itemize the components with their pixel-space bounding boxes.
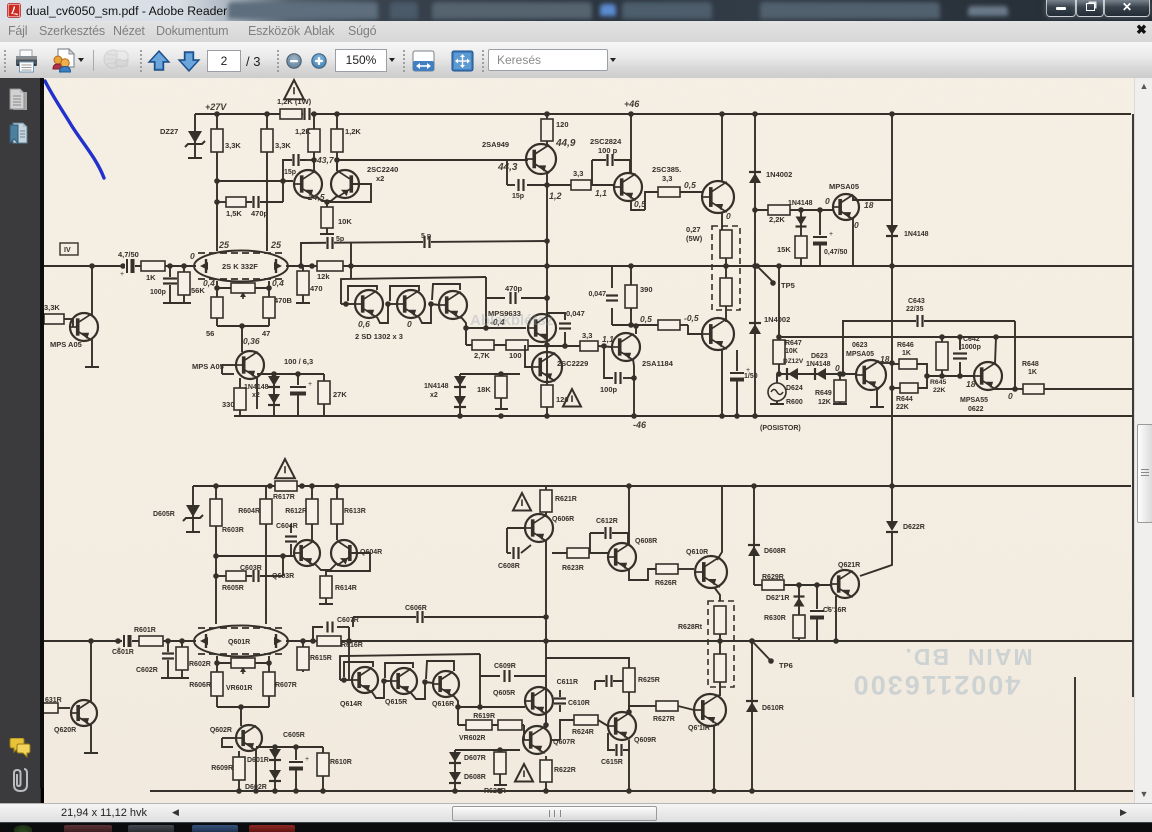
- resistor 1,2K (1W): [280, 109, 302, 119]
- resistor R621R: [545, 486, 547, 514]
- transistor Q607R: [523, 726, 551, 754]
- resistor 1K input: [141, 261, 165, 271]
- resistor R603R: [215, 486, 217, 624]
- wire buffer bases/emitters (bottom): [341, 677, 347, 683]
- svg-text:R603R: R603R: [222, 527, 244, 534]
- svg-text:Q620R: Q620R: [54, 727, 76, 734]
- svg-text:Q616R: Q616R: [432, 701, 454, 708]
- wire buffer bases/emitters: [343, 301, 349, 307]
- wire 2SA1184 emitter to rail: [633, 359, 634, 416]
- resistor R644 22K: [900, 383, 918, 393]
- svg-text:22K: 22K: [933, 387, 946, 394]
- resistor R604R: [265, 486, 267, 624]
- resistor 3,3K (left): [211, 129, 223, 152]
- transistor Q608R: [608, 543, 636, 571]
- resistor 3,3 (to Q13): [658, 187, 680, 197]
- warning triangle (R621R): [513, 493, 531, 511]
- svg-text:x2: x2: [430, 392, 438, 399]
- svg-text:1N4148: 1N4148: [788, 200, 813, 207]
- svg-text:DZ27: DZ27: [160, 127, 178, 136]
- capacitor C603R/R605R branch: [216, 575, 226, 577]
- wire bottom channel top rail: [193, 485, 1131, 487]
- wire 2SA1184 base feed: [528, 345, 580, 347]
- svg-text:5p: 5p: [336, 236, 344, 243]
- svg-text:2,7K: 2,7K: [474, 351, 490, 360]
- transistor 0623 MPSA05: [856, 360, 886, 390]
- wire buffer out node: [463, 325, 469, 331]
- svg-text:C604R: C604R: [276, 523, 298, 530]
- svg-text:C603R: C603R: [240, 565, 262, 572]
- svg-text:1K: 1K: [1028, 369, 1037, 376]
- transistor 2SC385: [614, 173, 642, 201]
- svg-text:MPSA05: MPSA05: [846, 351, 874, 358]
- dashed box 0,27 (5W) resistors: [712, 226, 740, 310]
- share/collab icon: [51, 48, 76, 73]
- wire base feed (bottom ch): [348, 641, 350, 679]
- svg-text:2SC2240: 2SC2240: [367, 165, 398, 174]
- resistor R626R (to Q610R): [656, 564, 678, 574]
- resistor R624R (to Q609R): [552, 739, 560, 741]
- svg-text:R624R: R624R: [572, 729, 594, 736]
- svg-text:0,36: 0,36: [243, 336, 260, 346]
- resistor 3,3 (to 2SC385): [547, 184, 614, 186]
- resistor 1,2K (right): [331, 129, 343, 152]
- wire output to speaker rail: [752, 263, 758, 269]
- transistor 2SD1302 (1): [355, 290, 383, 318]
- capacitor 5p (long feedback): [423, 236, 431, 248]
- resistor 56K: [183, 266, 185, 303]
- svg-text:-0,5: -0,5: [684, 313, 699, 323]
- svg-text:2SC2824: 2SC2824: [590, 137, 622, 146]
- svg-text:R614R: R614R: [335, 585, 357, 592]
- wire C606R left leg: [352, 617, 354, 627]
- svg-text:R621R: R621R: [555, 496, 577, 503]
- svg-text:2S K 332F: 2S K 332F: [222, 262, 258, 271]
- wire C643 feedback branch: [843, 321, 1015, 374]
- page up arrow: [147, 49, 171, 73]
- transistor 2SA949: [526, 144, 556, 174]
- svg-text:10K: 10K: [785, 348, 798, 355]
- svg-text:120: 120: [556, 120, 569, 129]
- svg-text:3,3K: 3,3K: [225, 141, 241, 150]
- svg-text:D622R: D622R: [903, 524, 925, 531]
- svg-text:R607R: R607R: [275, 682, 297, 689]
- resistor 2,7K: [472, 340, 494, 350]
- svg-text:1/50: 1/50: [744, 373, 758, 380]
- capacitor 100p 2SC2824: [592, 160, 630, 173]
- resistor R627R (to Q611R): [656, 701, 678, 711]
- wire right sub border: [1074, 677, 1076, 791]
- transistor Q605R: [525, 687, 553, 715]
- resistor R615R: [297, 647, 309, 670]
- wire Q611R collector down: [713, 726, 715, 791]
- wire Q603 base: [216, 555, 294, 557]
- wire 2SC2229 collector net: [546, 352, 548, 380]
- transistor 2SA1184: [612, 333, 640, 361]
- warning triangle (bottom lower): [515, 764, 533, 782]
- capacitor C609R loop (comp): [479, 654, 481, 707]
- svg-text:D623: D623: [811, 353, 828, 360]
- wire driver pnp collector to rail: [721, 350, 723, 416]
- svg-text:0623: 0623: [852, 342, 868, 349]
- wire buffer loop top: [341, 277, 486, 304]
- svg-text:1,2K (1W): 1,2K (1W): [277, 97, 312, 106]
- transistor 2SC2229: [532, 352, 562, 382]
- resistor R617R: [275, 481, 297, 491]
- resistor R622R: [545, 756, 547, 791]
- wire Q616R inner loop: [426, 661, 454, 679]
- left sidebar: [0, 78, 41, 803]
- svg-text:R604R: R604R: [238, 508, 260, 515]
- svg-text:631R: 631R: [45, 697, 62, 704]
- svg-text:C607R: C607R: [337, 617, 359, 624]
- svg-text:x2: x2: [252, 392, 260, 399]
- svg-text:2SA949: 2SA949: [482, 140, 509, 149]
- svg-text:56: 56: [206, 329, 214, 338]
- svg-text:+46: +46: [624, 99, 640, 109]
- svg-text:R619R: R619R: [473, 713, 495, 720]
- svg-text:100p: 100p: [600, 385, 618, 394]
- svg-text:Q606R: Q606R: [552, 516, 574, 523]
- svg-text:C608R: C608R: [498, 563, 520, 570]
- wire buffer inner loop 3: [432, 284, 460, 300]
- dashed box R628R resistors: [708, 601, 734, 687]
- trimmer VR601R: [217, 662, 269, 664]
- svg-text:+: +: [308, 381, 312, 388]
- svg-text:1,5K: 1,5K: [226, 209, 242, 218]
- transistor Q603R: [294, 540, 320, 566]
- transistor MPSA05 (protection): [833, 194, 859, 220]
- svg-text:C643: C643: [908, 298, 925, 305]
- svg-text:18: 18: [864, 200, 874, 210]
- resistor 27K: [323, 374, 325, 416]
- wire MPSA55 emitter to R648: [994, 388, 1015, 390]
- wire TP6: [752, 641, 770, 660]
- resistor 3,3 (to Q14): [658, 320, 680, 330]
- posistor R600/D624: [768, 383, 786, 401]
- resistor 15K: [800, 232, 802, 266]
- comments icon: [9, 738, 31, 758]
- svg-text:R628Rt: R628Rt: [678, 624, 703, 631]
- capacitor 0,047 (2SC2229): [547, 313, 565, 320]
- warning triangle (lower): [563, 389, 581, 407]
- svg-text:0,4: 0,4: [203, 278, 215, 288]
- transistor MPS A05 (current source): [236, 351, 264, 379]
- resistor 120 (lower): [546, 380, 548, 416]
- node dots on +27V rail: [214, 111, 220, 117]
- wire 2SC385 collector up: [630, 114, 632, 174]
- svg-text:R646: R646: [897, 342, 914, 349]
- svg-text:D610R: D610R: [762, 705, 784, 712]
- svg-text:R601R: R601R: [134, 627, 156, 634]
- wire bottom -46 rail: [234, 415, 1133, 417]
- svg-text:470p: 470p: [251, 209, 269, 218]
- zener D605R: [192, 486, 194, 532]
- capacitor C612R Q608R: [590, 533, 628, 543]
- svg-text:R644: R644: [896, 396, 913, 403]
- svg-text:IV: IV: [64, 247, 71, 254]
- svg-text:R615R: R615R: [310, 655, 332, 662]
- capacitor C605R: [295, 747, 297, 791]
- wire MPSA05 collector: [853, 196, 892, 200]
- wire Q603/Q604 emitters: [315, 564, 336, 570]
- wire buffer inner loop 2: [390, 286, 419, 301]
- capacitor 15p (2SC2240 base): [283, 160, 306, 181]
- wire R619R VR602R network: [457, 707, 459, 725]
- title bar: [0, 0, 1152, 21]
- bookmarks panel icon: [9, 122, 30, 148]
- svg-text:15p: 15p: [512, 193, 524, 200]
- svg-text:VR602R: VR602R: [459, 735, 485, 742]
- menu bar: [0, 21, 1152, 43]
- resistor 47 (source): [268, 297, 270, 326]
- diode 1N4002 (lower): [754, 266, 756, 416]
- svg-text:0: 0: [726, 211, 731, 221]
- transistor Q604R: [331, 540, 357, 566]
- svg-text:R630R: R630R: [764, 615, 786, 622]
- svg-text:-46: -46: [633, 420, 647, 430]
- svg-text:R626R: R626R: [655, 580, 677, 587]
- svg-text:MPSA55: MPSA55: [960, 397, 988, 404]
- wire Q621R emitter: [835, 596, 837, 641]
- wire 2SC2229 base/collector: [525, 345, 532, 367]
- svg-text:MPS A05: MPS A05: [50, 340, 82, 349]
- wire to Q602R: [240, 707, 242, 726]
- wire 2SC385 emitter: [631, 200, 640, 210]
- resistor R607R: [263, 672, 275, 696]
- wire MPSA55 collector up: [995, 337, 996, 364]
- svg-text:3,3: 3,3: [573, 169, 583, 178]
- capacitor C643 22/35: [916, 315, 924, 327]
- transistor Q611R: [694, 694, 726, 726]
- svg-text:D607R: D607R: [464, 755, 486, 762]
- resistor R614R: [325, 571, 327, 604]
- transistor Q620R: [71, 700, 97, 726]
- resistor R606R: [211, 672, 223, 696]
- capacitor 470p: [246, 201, 283, 203]
- svg-text:D601R: D601R: [247, 757, 269, 764]
- svg-text:R627R: R627R: [653, 716, 675, 723]
- svg-text:0,5: 0,5: [640, 314, 652, 324]
- transistor MPSA55 0622: [974, 362, 1002, 390]
- svg-text:43,7: 43,7: [316, 155, 335, 165]
- wire 2SC2240 collector/emitter join: [313, 160, 315, 171]
- resistor R612R: [311, 486, 313, 540]
- resistor 470 (jfet right): [302, 266, 304, 303]
- svg-text:(POSISTOR): (POSISTOR): [760, 425, 801, 432]
- svg-text:22K: 22K: [896, 404, 909, 411]
- svg-text:Q605R: Q605R: [493, 690, 515, 697]
- capacitor C602R: [167, 641, 169, 678]
- capacitor C642 1000p: [959, 337, 961, 350]
- zoom in circle: [311, 53, 327, 69]
- diode D621R: [798, 585, 800, 613]
- svg-text:1,1: 1,1: [595, 188, 607, 198]
- svg-text:D608R: D608R: [764, 548, 786, 555]
- wire Q610R emitter to R628R: [714, 587, 720, 601]
- capacitor C608R: [507, 527, 525, 529]
- node after 12K: [348, 263, 354, 269]
- wire mid rail node dots: [889, 263, 895, 269]
- ghost text 4002116300 MAIN BD (show-through): [852, 644, 1033, 700]
- wire driver emitter to 0,27: [721, 213, 723, 230]
- svg-text:0: 0: [854, 220, 859, 230]
- fit width icon: [412, 50, 435, 72]
- svg-text:D624: D624: [786, 385, 803, 392]
- svg-text:25: 25: [270, 240, 282, 250]
- resistor R610R: [322, 747, 324, 791]
- resistor R646 1K: [899, 359, 917, 369]
- svg-text:C611R: C611R: [557, 679, 578, 686]
- svg-text:390: 390: [640, 285, 653, 294]
- svg-text:R617R: R617R: [273, 494, 295, 501]
- wire Q610R collector: [717, 486, 722, 560]
- paperclip icon: [12, 766, 28, 792]
- svg-text:Q6'1lR: Q6'1lR: [688, 725, 710, 732]
- capacitor C606R feedback: [353, 616, 546, 618]
- svg-text:1N4148: 1N4148: [806, 361, 831, 368]
- transistor MPS A05 (input): [70, 313, 98, 341]
- svg-text:1K: 1K: [146, 273, 156, 282]
- diode 1N4148 (bias): [800, 210, 802, 232]
- transistor MPS9633: [528, 314, 556, 342]
- status bar: [0, 803, 1152, 823]
- resistor 10K with lead: [326, 202, 328, 234]
- svg-text:MPS A05: MPS A05: [192, 362, 224, 371]
- svg-text:Q608R: Q608R: [635, 538, 657, 545]
- wire Q601R source taps: [216, 656, 218, 672]
- diode 1N4148 (right): [886, 225, 898, 236]
- capacitor C611R: [595, 681, 628, 690]
- toolbar: [0, 42, 1152, 79]
- wire current source base/emitter: [222, 364, 236, 366]
- wire buffer inner loop 1: [348, 286, 377, 301]
- blue pen mark: [45, 81, 104, 178]
- svg-text:(5W): (5W): [686, 234, 703, 243]
- svg-text:1N4148: 1N4148: [424, 383, 449, 390]
- transistor driver NPN (top): [702, 181, 734, 213]
- svg-text:12K: 12K: [818, 399, 831, 406]
- svg-text:0,5: 0,5: [684, 180, 696, 190]
- svg-text:+: +: [120, 271, 124, 278]
- svg-text:R602R: R602R: [189, 661, 211, 668]
- jfet 2S K 332F (dual): [194, 251, 288, 282]
- diode 1N4002 (top): [749, 172, 761, 183]
- svg-text:25: 25: [218, 240, 230, 250]
- svg-text:D62'1R: D62'1R: [766, 595, 789, 602]
- svg-text:x2: x2: [376, 174, 384, 183]
- capacitor C604R: [290, 544, 292, 556]
- wire bias diode row: [460, 373, 520, 375]
- capacitor C616R: [816, 597, 818, 641]
- node dots input (bottom): [165, 638, 171, 644]
- transistor 2SC2240 (left): [294, 170, 322, 198]
- svg-text:Q610R: Q610R: [686, 549, 708, 556]
- svg-text:C609R: C609R: [494, 663, 516, 670]
- wire right border: [1132, 114, 1134, 697]
- svg-text:3,3K: 3,3K: [275, 141, 291, 150]
- wire 2,7K 100 network: [465, 328, 467, 345]
- svg-text:R612R: R612R: [285, 508, 307, 515]
- svg-text:TP5: TP5: [781, 281, 795, 290]
- capacitor 100/6,3: [297, 374, 299, 416]
- svg-text:5 p: 5 p: [421, 233, 431, 240]
- wire bias diode row (bottom): [455, 749, 520, 751]
- wire Q602R leads: [222, 737, 236, 739]
- capacitor across 1,2K: [303, 108, 311, 120]
- transistor Q616R: [433, 671, 459, 697]
- svg-text:R629R: R629R: [762, 574, 784, 581]
- svg-text:0: 0: [190, 251, 195, 261]
- svg-text:2 SD 1302 x 3: 2 SD 1302 x 3: [355, 332, 403, 341]
- svg-text:D605R: D605R: [153, 511, 175, 518]
- svg-text:MPSA05: MPSA05: [829, 182, 859, 191]
- resistor R609R: [238, 751, 240, 791]
- wire base feed from 12K: [350, 266, 352, 279]
- svg-text:Q621R: Q621R: [838, 562, 860, 569]
- svg-text:2SC2229: 2SC2229: [557, 359, 588, 368]
- svg-text:R645: R645: [930, 379, 946, 386]
- svg-text:+: +: [829, 231, 833, 238]
- capacitor C615R: [608, 733, 629, 750]
- svg-text:22/35: 22/35: [906, 306, 924, 313]
- svg-text:R600: R600: [786, 399, 803, 406]
- capacitor 100p (2SA1184): [604, 347, 613, 378]
- resistor R649 12K: [839, 374, 841, 404]
- svg-text:C601R: C601R: [112, 649, 134, 656]
- wire 1,5K/470p branch: [217, 201, 226, 203]
- svg-text:R613R: R613R: [344, 508, 366, 515]
- svg-text:24,5: 24,5: [307, 192, 325, 202]
- wire Q16 base/emitter: [830, 373, 856, 375]
- node IV input: [60, 243, 78, 255]
- svg-text:0: 0: [1008, 391, 1013, 401]
- svg-text:R649: R649: [815, 390, 832, 397]
- svg-text:12k: 12k: [317, 272, 330, 281]
- svg-text:15K: 15K: [777, 245, 791, 254]
- svg-text:0,047: 0,047: [588, 291, 606, 298]
- svg-text:4002116300: 4002116300: [852, 670, 1021, 700]
- resistor R645 22K: [941, 337, 943, 342]
- svg-text:47: 47: [262, 329, 270, 338]
- svg-text:1N4002: 1N4002: [766, 170, 792, 179]
- svg-text:3,3: 3,3: [662, 174, 672, 183]
- svg-text:+27V: +27V: [205, 102, 227, 112]
- svg-text:0622: 0622: [968, 406, 984, 413]
- svg-text:C606R: C606R: [405, 605, 427, 612]
- resistor 330: [239, 378, 241, 416]
- wire +27V/+46 top supply rail: [195, 113, 1131, 115]
- transistor Q621R: [831, 570, 859, 598]
- capacitor 15p (2SA949): [506, 160, 508, 185]
- resistor R619R (right): [498, 720, 522, 730]
- wire feedback to 2SA949 base: [337, 159, 528, 161]
- printer icon: [15, 49, 38, 73]
- svg-text:0: 0: [407, 319, 412, 329]
- svg-text:TP6: TP6: [779, 661, 793, 670]
- wire 2nd stage lower: Q609R: [608, 712, 636, 740]
- svg-text:3,3K: 3,3K: [44, 303, 60, 312]
- wire R625R top: [546, 658, 629, 664]
- svg-text:0,6: 0,6: [358, 319, 370, 329]
- taskbar sliver: [0, 822, 1152, 832]
- transistor Q615R: [391, 668, 417, 694]
- wire jfet source taps: [216, 281, 218, 297]
- svg-text:R605R: R605R: [222, 585, 244, 592]
- wire input line to mid rail: [44, 265, 196, 267]
- wire y=337 sense line: [779, 336, 1133, 338]
- pages panel icon: [9, 88, 30, 114]
